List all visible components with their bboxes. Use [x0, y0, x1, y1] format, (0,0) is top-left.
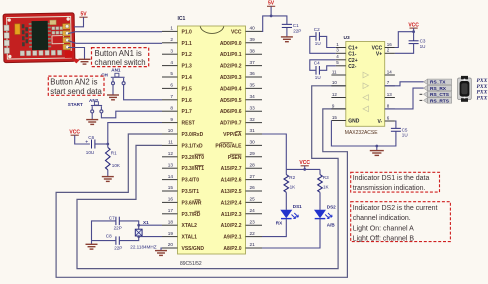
- IC1 pin 26 stub (A13/P2.5): [246, 190, 263, 192]
- svg-text:PXX: PXX: [477, 95, 488, 101]
- node crystal bottom: [137, 235, 140, 238]
- svg-text:P3.6/WR: P3.6/WR: [182, 200, 202, 206]
- ground (AN2): [86, 120, 98, 125]
- capacitor C1: [282, 24, 292, 27]
- U3 pin 10 stub: [331, 85, 345, 87]
- U3 pin 3 stub: [336, 52, 346, 54]
- wire C7 left to ground rail: [92, 221, 116, 244]
- svg-text:IC1: IC1: [178, 16, 186, 22]
- U3 pin 5 stub: [336, 65, 346, 67]
- svg-text:C1-: C1-: [348, 51, 356, 57]
- svg-text:DS2: DS2: [327, 205, 336, 210]
- IC1 pin 15 stub (P3.5/T1): [162, 190, 178, 192]
- DB9 serial connector photo: [458, 76, 472, 102]
- U3 pin 14 stub: [385, 74, 395, 76]
- wire AN2 left to ground: [91, 113, 93, 120]
- wire VCC pin 16: [395, 32, 414, 48]
- svg-text:13: 13: [168, 162, 174, 167]
- VCC rail for R2 R3: [286, 168, 320, 170]
- svg-text:10: 10: [168, 128, 174, 133]
- 89C51 MCU IC1 body: [178, 26, 246, 254]
- svg-text:9: 9: [170, 117, 173, 122]
- capacitor C6: [92, 140, 95, 149]
- svg-text:32: 32: [250, 117, 256, 122]
- svg-text:33: 33: [250, 105, 256, 110]
- svg-text:P1.6: P1.6: [182, 98, 193, 104]
- ground (C1): [281, 37, 293, 42]
- svg-text:AD7/P0.7: AD7/P0.7: [220, 121, 242, 127]
- svg-text:PSEN: PSEN: [228, 155, 242, 161]
- wire C8 to XTAL1 pin 19: [119, 237, 162, 241]
- svg-text:transmission indication.: transmission indication.: [353, 185, 426, 192]
- svg-text:7: 7: [170, 94, 173, 99]
- svg-text:RX: RX: [276, 220, 283, 225]
- svg-text:1U: 1U: [315, 41, 321, 46]
- svg-text:13: 13: [387, 92, 393, 97]
- svg-text:22: 22: [250, 231, 256, 236]
- RF radio module photo: [3, 13, 80, 65]
- svg-text:24: 24: [250, 208, 256, 213]
- LED DS1: [285, 192, 287, 210]
- svg-text:10K: 10K: [112, 163, 121, 168]
- svg-text:34: 34: [250, 94, 256, 99]
- U3 pin 1 stub: [336, 47, 346, 49]
- svg-text:GND: GND: [348, 119, 360, 125]
- U3 pin 7 stub: [385, 85, 395, 87]
- svg-text:1: 1: [170, 26, 173, 31]
- svg-text:A14/P2.6: A14/P2.6: [221, 178, 242, 184]
- port RS_TX: [424, 79, 428, 84]
- svg-text:21: 21: [250, 242, 256, 247]
- svg-text:Light Off: channel B: Light Off: channel B: [353, 236, 415, 243]
- svg-text:29: 29: [250, 151, 256, 156]
- wire T2OUT pin 7 to RS_TX: [385, 82, 424, 86]
- wire C2 to C1- pin 3: [310, 36, 336, 53]
- svg-text:C8: C8: [106, 233, 112, 238]
- svg-text:V-: V-: [377, 119, 382, 125]
- wire AN2 right to P1.7 pin 8: [101, 111, 162, 118]
- svg-text:C2: C2: [314, 27, 320, 32]
- svg-text:P3.0/RxD: P3.0/RxD: [182, 132, 204, 138]
- IC1 pin 14 stub (P3.4/T0): [162, 179, 178, 181]
- capacitor C2: [316, 32, 319, 41]
- wire module pad4 to ground: [68, 48, 85, 60]
- svg-text:10U: 10U: [86, 150, 94, 155]
- IC1 pin 1 stub (P1.0): [162, 30, 178, 32]
- wire AN1 right to P1.6 pin 7: [124, 85, 162, 100]
- push button AN1: [111, 73, 125, 84]
- svg-text:36: 36: [250, 71, 256, 76]
- resistor R3: [319, 169, 321, 174]
- wire module pad3 to P1.1 pin 2: [68, 41, 162, 44]
- node 5V junction: [270, 15, 273, 18]
- overline PSEN: [230, 153, 242, 155]
- svg-text:AD0/P0.0: AD0/P0.0: [220, 41, 242, 47]
- IC1 pin 12 stub (P3.2/INT0): [162, 156, 178, 158]
- svg-text:16: 16: [387, 42, 393, 47]
- U3 pin 15 stub: [331, 120, 345, 122]
- svg-text:A12/P2.4: A12/P2.4: [221, 200, 242, 206]
- U3 pin 13 stub: [385, 97, 395, 99]
- svg-text:A15/P2.7: A15/P2.7: [221, 166, 242, 172]
- port RS_RX: [424, 85, 428, 90]
- svg-text:1U: 1U: [315, 75, 321, 80]
- wire R2IN pin 8 to RS_RX: [385, 88, 424, 109]
- IC1 pin 3 stub (P1.2): [162, 53, 178, 55]
- wire C4 to C2- pin 5: [319, 66, 335, 71]
- svg-text:XTAL2: XTAL2: [182, 223, 198, 229]
- svg-text:P1.3: P1.3: [182, 64, 193, 70]
- svg-text:RS_RTS: RS_RTS: [430, 98, 450, 104]
- ground (AN1): [107, 95, 119, 100]
- svg-text:RS_CTS: RS_CTS: [430, 92, 450, 98]
- wire GND pin 15 rail: [331, 121, 396, 147]
- svg-text:C1: C1: [293, 23, 299, 28]
- annotation box: Button AN1 is channel switch: [92, 48, 149, 67]
- wire pin 40 VCC to 5V: [262, 16, 287, 32]
- LED DS2: [319, 192, 321, 210]
- svg-text:P1.1: P1.1: [182, 41, 193, 47]
- svg-text:15: 15: [168, 185, 174, 190]
- svg-text:5: 5: [170, 71, 173, 76]
- svg-text:14: 14: [168, 174, 174, 179]
- svg-text:PROG/ALE: PROG/ALE: [215, 143, 242, 149]
- wire module pad2 to P1.0 pin 1: [68, 32, 162, 34]
- IC1 pin 22 stub (A9/P2.1): [246, 236, 263, 238]
- svg-text:22P: 22P: [114, 245, 122, 250]
- svg-text:1K: 1K: [323, 185, 330, 190]
- IC1 pin 25 stub (A12/P2.4): [246, 201, 263, 203]
- svg-text:11: 11: [168, 140, 173, 145]
- svg-text:VPP/EA: VPP/EA: [223, 132, 242, 138]
- port RS_RTS: [424, 98, 428, 103]
- svg-text:22P: 22P: [293, 29, 301, 34]
- svg-text:3: 3: [170, 48, 173, 53]
- svg-text:P1.0: P1.0: [182, 29, 193, 35]
- svg-text:16: 16: [168, 197, 174, 202]
- svg-text:12: 12: [332, 92, 338, 97]
- ground (module): [79, 59, 91, 64]
- capacitor C5: [391, 128, 401, 131]
- svg-text:1U: 1U: [402, 133, 408, 138]
- annotation box: Indicator DS1: [351, 172, 440, 192]
- IC1 pin 39 stub (AD0/P0.0): [246, 42, 263, 44]
- svg-text:A/B: A/B: [327, 223, 336, 228]
- svg-text:A13/P2.5: A13/P2.5: [221, 189, 242, 195]
- svg-text:RS_TX: RS_TX: [430, 80, 446, 86]
- svg-text:RS_RX: RS_RX: [430, 86, 447, 92]
- svg-text:AD3/P0.3: AD3/P0.3: [220, 75, 242, 81]
- svg-text:P3.2/INT0: P3.2/INT0: [182, 155, 205, 161]
- svg-text:AD5/P0.5: AD5/P0.5: [220, 98, 242, 104]
- wire C2 to C1+ pin 1: [319, 36, 335, 47]
- wire P3.0/RxD loop to MAX232 R2OUT: [56, 109, 347, 277]
- IC1 pin 9 stub (REST): [162, 122, 178, 124]
- svg-text:27: 27: [250, 174, 256, 179]
- svg-text:R2: R2: [289, 175, 295, 180]
- U3 driver buffers: [363, 72, 369, 112]
- wire VPP/EA pin 31 to VCC rail: [262, 134, 286, 169]
- svg-text:AD2/P0.2: AD2/P0.2: [220, 64, 242, 70]
- svg-text:28: 28: [250, 162, 256, 167]
- svg-text:P1.4: P1.4: [182, 75, 193, 81]
- svg-text:1K: 1K: [290, 185, 297, 190]
- resistor R1: [106, 147, 111, 169]
- svg-text:P3.4/T0: P3.4/T0: [182, 178, 200, 184]
- svg-text:P3.1/TxD: P3.1/TxD: [182, 143, 204, 149]
- IC1 pin 23 stub (A10/P2.2): [246, 224, 263, 226]
- wire P3.1/TxD loop to MAX232 T2IN: [77, 86, 346, 269]
- IC1 pin 2 stub (P1.1): [162, 42, 178, 44]
- svg-text:A11/P2.3: A11/P2.3: [221, 212, 242, 218]
- node reset junction: [106, 143, 109, 146]
- svg-text:C2-: C2-: [348, 64, 356, 70]
- svg-text:30: 30: [250, 140, 256, 145]
- svg-text:22.1184MHZ: 22.1184MHZ: [130, 245, 156, 250]
- IC1 pin 6 stub (P1.5): [162, 87, 178, 89]
- IC1 pin 27 stub (A14/P2.6): [246, 179, 263, 181]
- annotation box: Button AN2 is start send data: [48, 76, 104, 95]
- ground (U3): [370, 151, 384, 156]
- wire C3 to V+ pin 2: [395, 44, 414, 54]
- svg-text:14: 14: [387, 69, 393, 74]
- svg-text:start send data: start send data: [50, 87, 102, 96]
- svg-text:12: 12: [168, 151, 174, 156]
- resistor R2: [285, 169, 287, 174]
- svg-text:4: 4: [170, 60, 173, 65]
- svg-text:C4: C4: [314, 61, 320, 66]
- svg-text:MAX232ACSE: MAX232ACSE: [345, 130, 378, 136]
- IC1 pin 18 stub (XTAL2): [162, 224, 178, 226]
- svg-text:AD6/P0.6: AD6/P0.6: [220, 109, 242, 115]
- svg-text:XTAL1: XTAL1: [182, 235, 198, 241]
- svg-text:P3.3/INT1: P3.3/INT1: [182, 166, 205, 172]
- svg-text:+: +: [85, 139, 88, 145]
- svg-text:89C51/52: 89C51/52: [180, 261, 202, 267]
- svg-text:REST: REST: [182, 121, 195, 127]
- IC1 pin 33 stub (AD6/P0.6): [246, 110, 263, 112]
- svg-text:P1.7: P1.7: [182, 109, 193, 115]
- svg-text:1U: 1U: [420, 44, 426, 49]
- svg-text:channel indication.: channel indication.: [353, 215, 411, 222]
- svg-text:Indicator DS2 is the current: Indicator DS2 is the current: [353, 205, 438, 212]
- wire REST pin 9 to node: [108, 123, 162, 148]
- svg-text:DS1: DS1: [293, 204, 302, 209]
- svg-text:26: 26: [250, 185, 256, 190]
- svg-text:10: 10: [332, 80, 338, 85]
- IC1 pin 40 stub (VCC): [246, 30, 263, 32]
- svg-text:18: 18: [168, 219, 174, 224]
- overline INT1: [195, 165, 204, 167]
- overline WR: [195, 199, 201, 201]
- svg-text:Button AN1 is: Button AN1 is: [95, 49, 142, 58]
- svg-text:A8/P2.0: A8/P2.0: [223, 246, 241, 252]
- IC1 pin 10 stub (P3.0/RxD): [162, 133, 178, 135]
- node VCC U3: [412, 30, 415, 33]
- svg-text:2: 2: [170, 37, 173, 42]
- U3 pin 8 stub: [385, 108, 395, 110]
- IC1 pin 37 stub (AD2/P0.2): [246, 65, 263, 67]
- capacitor C8: [116, 236, 119, 244]
- wire DS2 to A8/P2.0 pin 21: [262, 219, 320, 248]
- IC1 pin 11 stub (P3.1/TxD): [162, 144, 178, 146]
- svg-text:P3.7/RD: P3.7/RD: [182, 212, 201, 218]
- IC1 pin 19 stub (XTAL1): [162, 236, 178, 238]
- IC1 pin 8 stub (P1.7): [162, 110, 178, 112]
- svg-text:37: 37: [250, 60, 256, 65]
- svg-text:A10/P2.2: A10/P2.2: [221, 223, 242, 229]
- ground (R1): [102, 177, 114, 182]
- svg-text:6: 6: [170, 83, 173, 88]
- svg-text:VSS/GND: VSS/GND: [182, 246, 205, 252]
- svg-text:P1.5: P1.5: [182, 86, 193, 92]
- IC1 pin 13 stub (P3.3/INT1): [162, 167, 178, 169]
- svg-text:22P: 22P: [114, 226, 122, 231]
- svg-text:X1: X1: [143, 220, 149, 225]
- wire C8 left to ground rail: [92, 240, 116, 242]
- IC1 pin 24 stub (A11/P2.3): [246, 213, 263, 215]
- svg-text:C3: C3: [420, 38, 426, 43]
- crystal X1: [135, 229, 142, 236]
- svg-text:20: 20: [168, 242, 174, 247]
- svg-text:VCC: VCC: [231, 29, 242, 35]
- svg-text:Button AN2 is: Button AN2 is: [50, 77, 97, 86]
- svg-text:C6: C6: [88, 135, 94, 140]
- svg-text:AN1: AN1: [111, 68, 121, 73]
- overline PROG: [221, 142, 233, 144]
- annotation box: Indicator DS2: [351, 202, 451, 242]
- wire VSS pin 20 to ground: [161, 248, 162, 251]
- IC1 pin 38 stub (AD1/P0.1): [246, 53, 263, 55]
- svg-text:25: 25: [250, 197, 256, 202]
- svg-text:AD1/P0.1: AD1/P0.1: [220, 52, 242, 58]
- U3 pin 9 stub: [331, 108, 345, 110]
- IC1 pin 4 stub (P1.3): [162, 65, 178, 67]
- IC1 pin 30 stub (PROG/ALE): [246, 144, 263, 146]
- svg-text:31: 31: [250, 128, 256, 133]
- ground (VSS): [155, 251, 167, 256]
- wire VCC to C6: [75, 135, 90, 144]
- IC1 pin 17 stub (P3.7/RD): [162, 213, 178, 215]
- wire C7 to XTAL2 pin 18: [119, 221, 162, 225]
- svg-text:8: 8: [170, 105, 173, 110]
- overline INT0: [195, 153, 204, 155]
- svg-text:Indicator DS1 is the data: Indicator DS1 is the data: [353, 175, 430, 182]
- U3 pin 6 stub: [385, 120, 395, 122]
- IC1 pin 28 stub (A15/P2.7): [246, 167, 263, 169]
- wire AN1 left to ground: [112, 85, 114, 95]
- IC1 pin 5 stub (P1.4): [162, 76, 178, 78]
- svg-text:35: 35: [250, 83, 256, 88]
- wire C1 to ground: [286, 28, 288, 37]
- IC1 pin 34 stub (AD5/P0.5): [246, 99, 263, 101]
- wire C6 to node: [95, 143, 108, 145]
- svg-text:23: 23: [250, 219, 256, 224]
- IC1 pin 20 stub (VSS/GND): [162, 247, 178, 249]
- U3 pin 11 stub: [331, 74, 345, 76]
- svg-text:P1.2: P1.2: [182, 52, 193, 58]
- wire V- pin 6 to C5: [395, 121, 396, 128]
- overline EA: [236, 130, 242, 132]
- svg-text:A9/P2.1: A9/P2.1: [223, 235, 241, 241]
- svg-text:P3.5/T1: P3.5/T1: [182, 189, 200, 195]
- svg-text:AD4/P0.4: AD4/P0.4: [220, 86, 242, 92]
- wire R1 to ground: [107, 170, 109, 177]
- node crystal top: [137, 224, 140, 227]
- wire DS1 to A9/P2.1 pin 22: [262, 219, 286, 237]
- port RS_CTS: [424, 92, 428, 97]
- svg-text:R3: R3: [323, 175, 329, 180]
- IC1 pin 32 stub (AD7/P0.7): [246, 122, 263, 124]
- IC1 pin 29 stub (PSEN): [246, 156, 263, 158]
- svg-text:40: 40: [250, 26, 256, 31]
- IC1 pin 35 stub (AD4/P0.4): [246, 87, 263, 89]
- svg-text:START: START: [68, 102, 83, 107]
- node VCC rail: [303, 168, 306, 171]
- MAX232 U3 body: [346, 42, 385, 127]
- capacitor C4: [316, 66, 319, 75]
- node GND rail: [375, 145, 378, 148]
- svg-text:V+: V+: [376, 51, 382, 57]
- svg-text:Light On: channel A: Light On: channel A: [353, 225, 414, 232]
- svg-text:R1: R1: [111, 151, 117, 156]
- svg-text:11: 11: [332, 69, 337, 74]
- U3 pin 4 stub: [336, 59, 346, 61]
- overline RD: [195, 210, 201, 212]
- svg-text:17: 17: [168, 208, 174, 213]
- push button AN2: [91, 102, 103, 113]
- U3 pin 12 stub: [331, 97, 345, 99]
- svg-text:U3: U3: [344, 35, 350, 41]
- svg-text:19: 19: [168, 231, 174, 236]
- U3 pin 16 stub: [385, 47, 395, 49]
- IC1 pin 31 stub (VPP/EA): [246, 133, 263, 135]
- IC1 pin 7 stub (P1.6): [162, 99, 178, 101]
- svg-text:C7: C7: [109, 215, 115, 220]
- ground (crystal): [86, 244, 98, 249]
- wire C4 to C2+ pin 4: [310, 60, 336, 71]
- svg-text:39: 39: [250, 37, 256, 42]
- IC1 pin 16 stub (P3.6/WR): [162, 201, 178, 203]
- IC1 pin 21 stub (A8/P2.0): [246, 247, 263, 249]
- IC1 pin 36 stub (AD3/P0.3): [246, 76, 263, 78]
- capacitor C3: [413, 32, 415, 41]
- svg-text:38: 38: [250, 48, 256, 53]
- U3 pin 2 stub: [385, 52, 395, 54]
- svg-text:channel switch: channel switch: [95, 58, 146, 67]
- capacitor C7: [116, 217, 119, 225]
- svg-text:15: 15: [332, 115, 338, 120]
